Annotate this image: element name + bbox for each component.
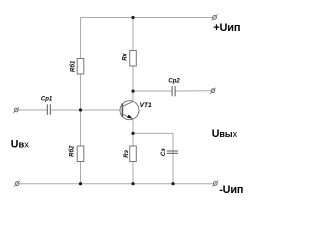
- wire Rb1 branch vertical: [80, 18, 82, 111]
- svg-text:+Uип: +Uип: [213, 22, 240, 34]
- capacitor Cэ: [161, 148, 178, 156]
- svg-text:Uвх: Uвх: [11, 139, 29, 151]
- wire Cp2 to output terminal: [175, 90, 211, 92]
- label Uвх: [11, 139, 29, 151]
- terminal input: [13, 107, 19, 113]
- resistor Rб2: [69, 145, 84, 162]
- wire bottom rail: [19, 183, 214, 185]
- wire emitter vertical through Re: [132, 119, 134, 184]
- junction Rэ bottom: [131, 182, 134, 185]
- label +Uип: [213, 22, 240, 34]
- junction top rail / Rк: [131, 16, 134, 19]
- label Uвых: [212, 128, 238, 140]
- svg-text:VT1: VT1: [140, 102, 152, 109]
- wire Rk/collector branch vertical: [132, 18, 134, 92]
- wire Ce branch vertical: [172, 133, 174, 183]
- junction emitter node: [131, 132, 134, 135]
- svg-text:Uвых: Uвых: [212, 128, 238, 140]
- svg-text:Cр2: Cр2: [168, 79, 180, 85]
- svg-text:Rэ: Rэ: [124, 149, 130, 157]
- wire input to Cp1: [18, 109, 47, 111]
- resistor Rк: [123, 51, 137, 67]
- resistor Rб1: [70, 59, 84, 75]
- terminal output: [210, 88, 216, 94]
- svg-text:Rк: Rк: [123, 52, 129, 60]
- transistor VT1: [120, 91, 152, 120]
- svg-text:-Uип: -Uип: [219, 184, 243, 196]
- wire base (Cp1 to VT1): [50, 109, 122, 111]
- wire emitter node to Ce: [133, 132, 173, 134]
- junction collector node: [131, 90, 134, 93]
- capacitor Cр2: [168, 79, 180, 97]
- terminal bottom-left: [14, 181, 20, 187]
- terminal -Uип: [212, 180, 218, 186]
- label -Uип: [219, 184, 243, 196]
- wire Rb2 branch vertical: [80, 110, 82, 184]
- junction Cэ bottom: [171, 182, 174, 185]
- svg-text:Rб1: Rб1: [70, 60, 77, 72]
- capacitor Cр1: [41, 97, 53, 115]
- junction Rб2 bottom: [79, 182, 82, 185]
- svg-text:Cр1: Cр1: [41, 97, 53, 103]
- junction base node: [79, 108, 82, 111]
- wire collector node to Cp2: [133, 90, 172, 92]
- terminal +Uип: [212, 14, 218, 20]
- resistor Rэ: [124, 146, 136, 162]
- wire top rail: [81, 17, 213, 19]
- svg-text:Rб2: Rб2: [69, 145, 76, 157]
- svg-text:Cэ: Cэ: [161, 148, 167, 156]
